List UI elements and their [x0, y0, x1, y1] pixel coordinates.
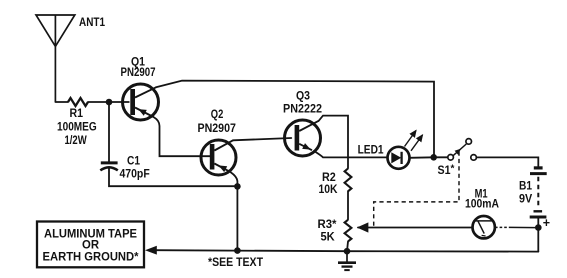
ground symbol [338, 251, 356, 270]
svg-text:5K: 5K [321, 229, 336, 243]
node A junction [106, 99, 113, 106]
wire node A to capacitor C1 [108, 102, 110, 161]
wire Q3 collector to R2 top [319, 116, 348, 169]
transistor Q3 PN2222 [283, 89, 322, 157]
svg-text:9V: 9V [519, 191, 532, 205]
battery B1 [519, 168, 550, 230]
dashed linkage S1 to R3 [374, 152, 459, 227]
svg-text:PN2907: PN2907 [198, 121, 237, 135]
svg-text:+: + [543, 216, 550, 230]
svg-text:470pF: 470pF [120, 167, 150, 181]
wire S1 node to switch [437, 156, 448, 158]
svg-text:EARTH GROUND*: EARTH GROUND* [43, 250, 139, 264]
S1 node junction [430, 154, 437, 161]
LED1 [358, 131, 423, 169]
wire R1 to node A [88, 101, 129, 103]
capacitor C1 [100, 154, 149, 181]
wire Q2 collector to Q3 base [233, 138, 291, 140]
svg-text:100MEG: 100MEG [57, 120, 97, 134]
wire Q3 emitter to LED1 [314, 151, 388, 157]
wire R3 bottom to ground node [347, 242, 348, 252]
battery plus node junction [535, 224, 542, 231]
wire C1 bottom to node B [109, 168, 237, 186]
svg-text:*SEE TEXT: *SEE TEXT [208, 255, 264, 269]
svg-text:Q3: Q3 [296, 89, 310, 103]
svg-text:Q2: Q2 [211, 107, 224, 121]
svg-text:S1: S1 [438, 163, 451, 177]
wire antenna to R1 [55, 101, 68, 103]
transistor Q2 PN2907 [198, 107, 237, 175]
svg-text:ANT1: ANT1 [79, 15, 105, 29]
resistor R2 [319, 169, 352, 196]
node on bottom rail below B [234, 247, 241, 254]
bottom rail wire [157, 250, 539, 251]
wire battery to bottom rail [537, 219, 539, 252]
node B junction [234, 183, 241, 190]
svg-text:PN2907: PN2907 [121, 65, 156, 79]
wire node B to bottom rail [236, 186, 238, 250]
potentiometer R3 [318, 217, 352, 244]
switch S1 [438, 139, 477, 177]
wire Q1 collector top rail to S1 node [156, 81, 434, 155]
arrow into ground box [145, 246, 157, 255]
svg-text:R1: R1 [70, 106, 84, 120]
meter M1 100mA [465, 186, 499, 238]
wire R3 wiper to M1 [358, 227, 473, 229]
svg-text:10K: 10K [319, 182, 338, 196]
svg-text:1/2W: 1/2W [65, 133, 88, 147]
svg-text:*: * [451, 164, 455, 175]
svg-text:LED1: LED1 [358, 143, 384, 157]
transistor Q1 PN2907 [121, 55, 159, 121]
aluminum tape / earth ground box [37, 222, 144, 268]
antenna ANT1 [36, 15, 105, 102]
ground node junction [344, 248, 351, 255]
wire R2 to R3 [347, 191, 349, 219]
wire LED1 to S1 node [410, 156, 434, 159]
wire Q1 emitter to Q2 base [154, 117, 210, 156]
wire switch to battery B1 [476, 157, 538, 166]
wire Q2 emitter to node B [231, 173, 237, 187]
svg-text:C1: C1 [127, 154, 140, 168]
resistor R1 [57, 98, 97, 147]
svg-text:PN2222: PN2222 [283, 102, 322, 116]
wire M1 to battery plus node [495, 226, 535, 228]
svg-text:100mA: 100mA [465, 197, 499, 211]
